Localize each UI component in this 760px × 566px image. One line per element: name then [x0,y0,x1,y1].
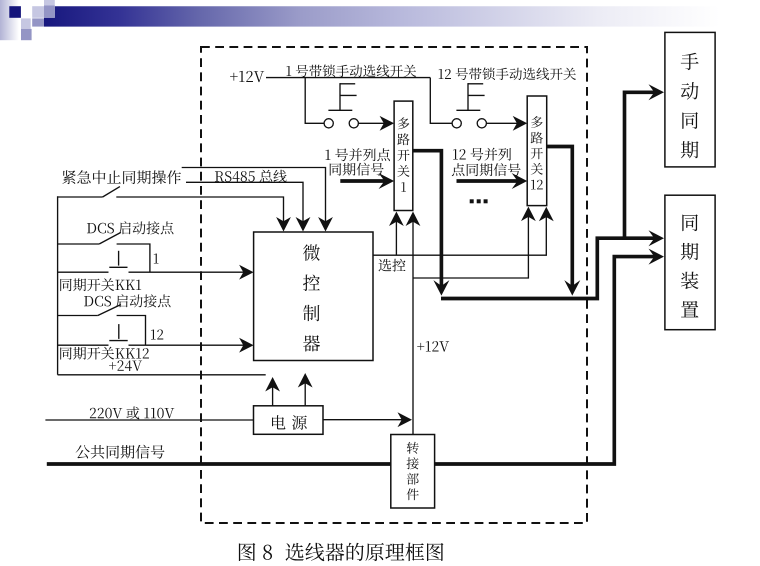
label 220V 或 110V [90,406,174,419]
block 多路开关1 (multiplex switch 1) [394,101,413,210]
wire emergency switch stub [58,196,103,198]
wire 电源 to +12V rail arrow [323,412,412,427]
label contact number 12 [151,329,163,339]
label 选控 [379,259,406,272]
wire KK12 lower left [58,344,109,346]
label 紧急中止同期操作 [62,170,181,184]
thick wire 多路开关1 output [413,151,450,296]
wire emergency to 微控制器 [116,197,291,232]
wire drop to switch S12 [430,78,452,124]
label 同期开关KK1 [60,278,141,291]
wire KK1 lower left [58,271,109,273]
label contact number 1 [154,254,159,264]
label DCS 启动接点 (KK1) [87,221,173,234]
label +12V supply [230,71,264,82]
switch DCS blade KK1 [99,232,121,244]
thick wire input 12号并列点同期信号 [457,173,528,189]
label input 1号并列点 line1 [325,148,389,161]
label input 点同期信号 line2 [452,163,521,176]
wire left bus vertical [57,196,59,374]
wire 220V input [45,419,253,421]
wire KK12 upper branch right [117,316,146,346]
wire 电源 to 微控制器 arrow [298,373,313,406]
label 公共同期信号 [76,445,165,459]
label input 12号并列 line1 [453,148,511,161]
switch S1 latching actuator [328,83,356,110]
wire +12V branch to 多路开关12 [413,207,536,278]
block 微控制器 (microcontroller) [254,232,373,361]
label +24V [109,360,142,371]
thick wire selected signal bus [441,230,664,298]
thick wire branch to 手动同期 [625,84,665,240]
wire 选控 branch to 多路开关1 [389,212,404,256]
label switch S1 1号带锁手动选线开关 [286,65,416,78]
block 多路开关12 (multiplex switch 12) [527,96,547,206]
wire S12 to 多路开关12 with arrow [486,116,527,131]
wire 电源 to +24V arrow [265,377,280,406]
label RS485 总线 [215,170,287,183]
wire KK1 upper branch [58,243,100,245]
wire KK1 upper branch right [117,244,150,272]
block 同期装置 (synchronization device) [665,195,715,330]
switch S1 contact circles [324,119,358,128]
label switch S12 12号带锁手动选线开关 [439,68,576,81]
switch emergency blade [103,187,120,197]
wire +12V rail vertical with arrow into 多路开关1 [406,212,421,435]
label 同期开关KK12 [60,347,149,360]
wire 选控 net [373,207,554,255]
wire drop to switch S1 [305,78,324,124]
wire +12V top rail [266,77,430,79]
thick wire 多路开关12 output [547,147,581,296]
wire KK12 to 微控制器 with arrow [129,338,254,353]
wire +24V rail [58,374,266,376]
label DCS 启动接点 (KK12) [84,294,170,307]
caption 图8 选线器的原理框图 [239,543,444,562]
switch DCS blade KK12 [98,305,121,316]
contact KK12 symbol [109,324,127,341]
label +12V rail [417,341,449,352]
wire KK12 upper branch [58,315,98,317]
thick wire 公共同期信号 [47,249,664,464]
block 转接部件 (adapter unit) [391,435,435,509]
ellipsis dots [470,199,488,203]
label input 同期信号 line2 [330,163,384,176]
block 电源 (power supply) [254,406,324,435]
switch S12 contact circles [452,119,486,128]
wire KK1 to 微控制器 with arrow [129,265,254,280]
dashed enclosure 选线器 [201,47,587,523]
contact KK1 symbol [109,251,127,267]
switch S12 latching actuator [456,83,484,110]
wire RS485 line A [182,168,333,232]
block 手动同期 (manual synchronization) [665,32,715,167]
thick wire input 1号并列点同期信号 [340,173,394,189]
wire RS485 line B [186,182,310,231]
wire S1 to 多路开关1 with arrow [358,116,394,131]
